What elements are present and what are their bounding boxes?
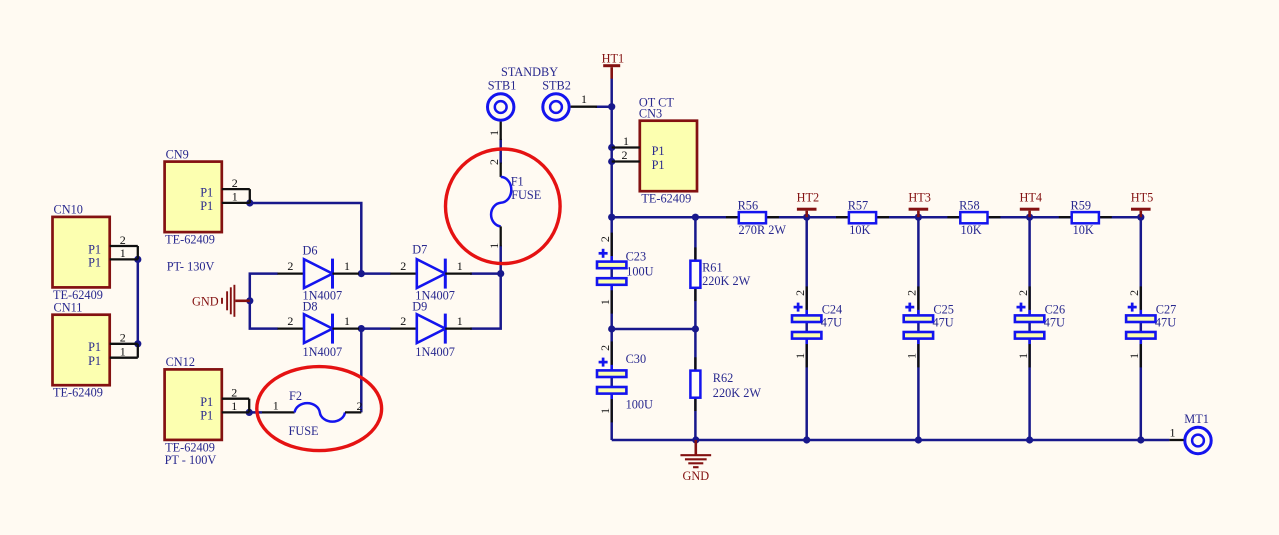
- svg-text:1: 1: [1127, 353, 1141, 359]
- svg-text:C30: C30: [626, 352, 647, 366]
- node mid rail left: [608, 325, 615, 332]
- svg-text:TE-62409: TE-62409: [53, 386, 103, 400]
- node rail left: [608, 214, 615, 221]
- svg-text:1N4007: 1N4007: [415, 345, 455, 359]
- svg-text:47U: 47U: [1155, 316, 1176, 330]
- svg-text:HT1: HT1: [602, 51, 625, 65]
- power HT5: [1131, 190, 1154, 217]
- svg-text:STANDBY: STANDBY: [501, 65, 558, 79]
- node GND left: [246, 297, 253, 304]
- svg-text:STB1: STB1: [488, 79, 517, 93]
- svg-text:STB2: STB2: [542, 79, 571, 93]
- svg-text:1: 1: [581, 92, 587, 106]
- svg-text:PT- 130V: PT- 130V: [167, 259, 215, 273]
- svg-text:F1: F1: [511, 175, 524, 189]
- svg-text:PT - 100V: PT - 100V: [165, 453, 217, 467]
- svg-text:CN12: CN12: [166, 355, 195, 369]
- node F1 output: [497, 270, 504, 277]
- node HT1-STB2: [608, 103, 615, 110]
- wire bottom rail: [612, 439, 1170, 442]
- connector CN9: [165, 147, 250, 246]
- svg-text:C25: C25: [933, 303, 954, 317]
- svg-text:220K 2W: 220K 2W: [713, 386, 762, 400]
- svg-text:1: 1: [344, 259, 350, 273]
- node HT3: [915, 214, 922, 221]
- svg-text:10K: 10K: [849, 223, 870, 237]
- svg-text:2: 2: [287, 314, 293, 328]
- svg-text:100U: 100U: [626, 265, 653, 279]
- svg-text:CN3: CN3: [639, 107, 662, 121]
- power HT1: [602, 51, 625, 78]
- svg-text:2: 2: [905, 290, 919, 296]
- node CN11 pin2: [134, 340, 141, 347]
- wire F1 to node: [499, 246, 502, 274]
- capacitor C23: [597, 233, 654, 314]
- svg-text:2: 2: [793, 290, 807, 296]
- svg-text:P1: P1: [200, 395, 213, 409]
- svg-text:2: 2: [487, 159, 501, 165]
- svg-text:2: 2: [1127, 290, 1141, 296]
- svg-text:2: 2: [120, 331, 126, 345]
- svg-text:2: 2: [400, 314, 406, 328]
- wire HT5 column: [1140, 217, 1143, 440]
- svg-text:R57: R57: [848, 199, 869, 213]
- wire HT1 vertical: [610, 78, 613, 217]
- svg-text:P1: P1: [652, 158, 665, 172]
- wire HT3 column: [917, 217, 920, 440]
- svg-text:47U: 47U: [821, 316, 842, 330]
- svg-text:2: 2: [622, 148, 628, 162]
- resistor R59: [1059, 199, 1112, 237]
- wire STB2 to HT1 rail: [596, 105, 612, 108]
- power HT2: [797, 190, 820, 217]
- svg-text:R62: R62: [713, 371, 734, 385]
- node MT1 junction: [1137, 436, 1144, 443]
- diode D9: [390, 300, 472, 360]
- capacitor C25: [904, 286, 954, 367]
- svg-text:10K: 10K: [1073, 223, 1094, 237]
- svg-text:MT1: MT1: [1184, 412, 1209, 426]
- capacitor C26: [1015, 286, 1065, 367]
- ground GND left: [192, 285, 250, 317]
- resistor R57: [836, 199, 889, 237]
- power HT3: [908, 190, 931, 217]
- svg-text:1: 1: [120, 246, 126, 260]
- wire R61 branch: [694, 217, 697, 329]
- svg-text:C27: C27: [1156, 303, 1177, 317]
- svg-text:1: 1: [273, 398, 279, 412]
- power HT4: [1020, 190, 1043, 217]
- svg-text:2: 2: [400, 259, 406, 273]
- svg-text:CN10: CN10: [54, 203, 83, 217]
- wire CN12 to F2: [249, 411, 262, 414]
- wire HT2 column: [805, 217, 808, 440]
- svg-text:GND: GND: [682, 469, 709, 483]
- svg-text:2: 2: [120, 233, 126, 247]
- connector CN11: [53, 301, 138, 400]
- svg-text:GND: GND: [192, 294, 219, 308]
- svg-text:HT4: HT4: [1020, 190, 1043, 204]
- node CN9 pin1: [246, 199, 253, 206]
- svg-text:R56: R56: [738, 199, 759, 213]
- svg-text:1: 1: [487, 130, 501, 136]
- svg-text:2: 2: [598, 236, 612, 242]
- svg-text:F2: F2: [289, 389, 302, 403]
- fuse F1: [487, 159, 541, 249]
- svg-text:1: 1: [457, 314, 463, 328]
- svg-text:C23: C23: [626, 250, 647, 264]
- svg-text:1: 1: [487, 243, 501, 249]
- node D6-D7: [358, 270, 365, 277]
- node CN10 pin1: [134, 256, 141, 263]
- label STANDBY: [501, 65, 558, 79]
- node C25 bottom: [915, 436, 922, 443]
- svg-text:1: 1: [598, 299, 612, 305]
- wire R62 branch: [694, 329, 697, 440]
- node mid rail right: [692, 325, 699, 332]
- label PT- 130V: [167, 259, 215, 273]
- svg-text:1N4007: 1N4007: [303, 345, 343, 359]
- node C26 bottom: [1026, 436, 1033, 443]
- wire STB1 to F1: [499, 139, 502, 164]
- node HT2: [803, 214, 810, 221]
- svg-text:D6: D6: [303, 244, 318, 258]
- svg-text:1: 1: [598, 408, 612, 414]
- svg-text:2: 2: [287, 259, 293, 273]
- svg-text:R59: R59: [1071, 199, 1092, 213]
- wire D9 to F1 node: [470, 274, 501, 329]
- svg-text:2: 2: [1016, 290, 1030, 296]
- svg-text:P1: P1: [200, 199, 213, 213]
- svg-text:1: 1: [623, 134, 629, 148]
- svg-text:1: 1: [905, 353, 919, 359]
- svg-text:P1: P1: [88, 242, 101, 256]
- terminal STB1: [487, 79, 517, 141]
- node CN12 pin1: [246, 409, 253, 416]
- svg-text:1: 1: [1016, 353, 1030, 359]
- wire CN9 to bridge node: [250, 203, 361, 274]
- node R61 top: [692, 214, 699, 221]
- svg-text:D9: D9: [412, 300, 427, 314]
- svg-text:CN11: CN11: [54, 301, 83, 315]
- svg-text:FUSE: FUSE: [511, 188, 541, 202]
- node HT4: [1026, 214, 1033, 221]
- svg-text:2: 2: [598, 345, 612, 351]
- terminal STB2: [542, 79, 597, 121]
- svg-text:R58: R58: [959, 199, 980, 213]
- wire F2 to bridge: [360, 329, 363, 413]
- wire main HT rail: [612, 216, 1141, 219]
- svg-text:C24: C24: [822, 303, 843, 317]
- svg-text:HT3: HT3: [908, 190, 931, 204]
- resistor R58: [947, 199, 1000, 237]
- terminal MT1: [1169, 412, 1211, 454]
- node CN3 pin1: [608, 144, 615, 151]
- diode D7: [390, 243, 472, 303]
- svg-text:220K 2W: 220K 2W: [702, 274, 751, 288]
- svg-text:1: 1: [120, 345, 126, 359]
- wire C23 branch: [610, 217, 613, 329]
- svg-text:HT2: HT2: [797, 190, 820, 204]
- svg-text:47U: 47U: [933, 316, 954, 330]
- svg-text:FUSE: FUSE: [289, 424, 319, 438]
- wire D6 to D7: [358, 272, 391, 275]
- svg-text:R61: R61: [702, 260, 723, 274]
- wire C30 branch: [610, 329, 613, 440]
- highlight ellipse around F2: [257, 367, 382, 451]
- highlight circle around F1: [446, 149, 561, 264]
- connector CN12: [165, 355, 250, 467]
- svg-text:D7: D7: [412, 243, 427, 257]
- node GND bottom: [692, 436, 699, 443]
- svg-text:1: 1: [793, 353, 807, 359]
- node CN3 pin2: [608, 158, 615, 165]
- wire D8 to D9: [358, 327, 391, 330]
- svg-text:270R 2W: 270R 2W: [739, 223, 787, 237]
- svg-text:P1: P1: [88, 340, 101, 354]
- ground GND bottom: [680, 440, 711, 483]
- svg-text:1: 1: [457, 259, 463, 273]
- resistor R62: [690, 357, 761, 411]
- wire HT4 column: [1028, 217, 1031, 440]
- svg-text:100U: 100U: [626, 398, 653, 412]
- svg-text:HT5: HT5: [1131, 190, 1154, 204]
- svg-text:P1: P1: [200, 409, 213, 423]
- svg-text:P1: P1: [652, 144, 665, 158]
- capacitor C24: [792, 286, 842, 367]
- svg-text:2: 2: [232, 176, 238, 190]
- svg-text:P1: P1: [200, 185, 213, 199]
- svg-text:1: 1: [1170, 426, 1176, 440]
- svg-text:CN9: CN9: [166, 147, 189, 161]
- svg-text:10K: 10K: [961, 223, 982, 237]
- node D8-D9: [358, 325, 365, 332]
- connector CN10: [53, 203, 138, 302]
- connector CN3: [612, 96, 697, 206]
- node HT5: [1137, 214, 1144, 221]
- diode D6: [278, 244, 360, 303]
- svg-text:1: 1: [344, 314, 350, 328]
- wire middle rail: [612, 328, 696, 331]
- wire D7 to F1 node: [470, 272, 501, 275]
- capacitor C30: [597, 341, 653, 422]
- svg-text:1: 1: [231, 399, 237, 413]
- resistor R61: [690, 247, 750, 301]
- svg-text:C26: C26: [1045, 303, 1066, 317]
- svg-text:D8: D8: [303, 300, 318, 314]
- wire GND rail to D6: [250, 274, 278, 329]
- svg-text:1: 1: [232, 190, 238, 204]
- svg-text:TE-62409: TE-62409: [641, 192, 691, 206]
- wire CN10-CN11 tie: [137, 259, 140, 343]
- svg-text:P1: P1: [88, 256, 101, 270]
- capacitor C27: [1126, 286, 1176, 367]
- svg-text:47U: 47U: [1044, 316, 1065, 330]
- node C24 bottom: [803, 436, 810, 443]
- svg-text:P1: P1: [88, 354, 101, 368]
- resistor R56: [726, 199, 786, 237]
- diode D8: [278, 300, 360, 360]
- svg-text:2: 2: [357, 399, 363, 413]
- fuse F2: [262, 389, 363, 438]
- svg-text:2: 2: [231, 386, 237, 400]
- svg-text:TE-62409: TE-62409: [165, 233, 215, 247]
